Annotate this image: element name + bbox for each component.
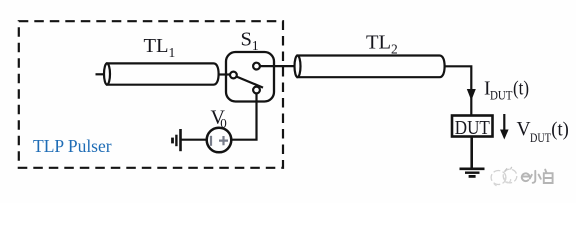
current arrow head I_DUT xyxy=(467,89,476,101)
dashed enclosure box (TLP pulser boundary) xyxy=(19,21,283,168)
svg-text:TL1: TL1 xyxy=(144,35,176,60)
svg-text:TLP Pulser: TLP Pulser xyxy=(33,136,112,156)
switch S1 pin 2 (top right terminal) xyxy=(253,63,260,70)
watermark icon (sketch logo) xyxy=(491,167,517,186)
wire (ground to V0) xyxy=(181,139,208,141)
svg-text:(t): (t) xyxy=(551,120,569,141)
svg-text:0: 0 xyxy=(220,116,227,131)
wire (V0 to switch bottom pin, L-shape) xyxy=(231,93,256,140)
wire (switch S1 to TL2) xyxy=(260,65,296,67)
switch S1 pin 1 (left terminal) xyxy=(230,72,237,79)
switch S1 pin 3 (bottom terminal) xyxy=(253,87,260,94)
transmission line TL2 body xyxy=(298,56,445,78)
svg-text:DUT: DUT xyxy=(530,131,551,145)
V0 plus terminal mark xyxy=(219,136,228,145)
ground (below DUT) xyxy=(460,168,485,171)
wire (TL1 to switch S1) xyxy=(218,73,232,75)
voltage arrow V_DUT xyxy=(503,114,505,131)
wire (DUT to ground) xyxy=(470,137,473,169)
ground (rotated, left of V0) xyxy=(179,129,182,151)
voltage source V0 circle xyxy=(207,128,232,153)
svg-text:TL2: TL2 xyxy=(366,32,398,57)
switch S1 box xyxy=(226,52,274,102)
V0 minus terminal mark xyxy=(210,136,212,146)
svg-text:DUT: DUT xyxy=(490,89,513,103)
transmission line TL1 left cap ellipse xyxy=(104,63,110,84)
transmission line TL2 left cap ellipse xyxy=(295,56,301,78)
svg-text:V: V xyxy=(517,119,531,140)
switch blade xyxy=(237,77,263,88)
watermark text e小白 xyxy=(522,170,553,183)
DUT box xyxy=(452,116,493,137)
svg-text:DUT: DUT xyxy=(455,117,490,139)
wire (TL2 to DUT, L-shape) xyxy=(444,66,472,114)
transmission line TL1 body xyxy=(107,63,219,84)
svg-text:S1: S1 xyxy=(241,29,259,54)
svg-text:(t): (t) xyxy=(513,79,529,100)
wire (stub left of TL1) xyxy=(96,73,106,75)
